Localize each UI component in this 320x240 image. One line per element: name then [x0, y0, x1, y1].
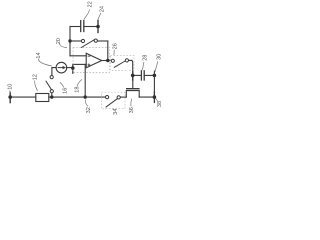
svg-text:36: 36 [129, 107, 135, 113]
dashed box around op-amp [73, 48, 110, 73]
junction dots [68, 39, 71, 42]
input terminal stub [9, 92, 11, 102]
wire riser right column [153, 71, 155, 97]
svg-text:26: 26 [113, 43, 119, 49]
wire op-amp minus lead [70, 55, 86, 57]
wire riser inverting node [69, 27, 71, 56]
svg-text:18: 18 [75, 86, 81, 92]
leader 28 [142, 62, 144, 70]
leader 12 [35, 81, 38, 91]
leader 18 [77, 79, 82, 86]
wire op-amp plus lead [73, 63, 86, 65]
wire gate riser [132, 75, 134, 88]
dashed box around switch S4 [102, 92, 126, 109]
leader lines [10, 10, 158, 110]
node stub plus-input [72, 64, 74, 73]
svg-text:22: 22 [88, 1, 94, 7]
wire rail to transistor [120, 96, 126, 98]
wire feedback switch row [71, 40, 81, 42]
dashed box around switch S2 [110, 56, 134, 71]
node stub right of C1 [97, 21, 99, 33]
leader 10 [9, 90, 11, 93]
svg-text:20: 20 [56, 38, 62, 44]
switch S3 contact circles [50, 76, 53, 79]
transistor Q1 channel staple [126, 91, 139, 98]
wire current source right lead [67, 67, 73, 69]
leader 30 [155, 61, 158, 72]
current source I1 [56, 62, 67, 73]
node stub right rail [153, 92, 155, 102]
svg-text:28: 28 [143, 55, 149, 61]
wire current source left lead [52, 68, 56, 76]
leader 14 [38, 59, 52, 67]
switch S3 blade [46, 81, 51, 89]
switch S1 blade [81, 40, 94, 48]
wire hold-cap row right [145, 74, 155, 76]
leader 24 [98, 13, 101, 20]
switch S2 contact circles [111, 59, 114, 62]
capacitor C1 plates [80, 21, 82, 32]
svg-text:38: 38 [157, 101, 163, 107]
op-amp minus sign [88, 55, 91, 57]
wire riser plus-input to rail [84, 64, 86, 97]
svg-text:16: 16 [63, 88, 69, 94]
switch S4 contact circles [106, 96, 109, 99]
wire switch S3 to rail [51, 93, 53, 96]
wire riser to hold-cap wire [131, 60, 134, 75]
box 12 [36, 94, 49, 102]
op-amp plus sign [88, 64, 91, 67]
transistor Q1 gate bar [127, 88, 139, 90]
svg-text:10: 10 [8, 84, 14, 90]
op-amp U1 triangle [86, 53, 102, 68]
svg-text:34: 34 [113, 109, 119, 115]
leader 38 [156, 99, 158, 101]
reference numerals (rotated) [8, 1, 164, 115]
capacitor C2 plates [140, 71, 142, 80]
wire rail input to box [10, 96, 36, 98]
svg-text:14: 14 [36, 52, 42, 58]
wire output switch segment [129, 59, 132, 61]
node stub hold-cap left [132, 71, 134, 80]
wire hold-cap row left [133, 74, 141, 76]
svg-text:12: 12 [33, 74, 39, 80]
leader 36 [130, 99, 133, 107]
leader 20 [60, 44, 68, 48]
switch S2 blade [114, 61, 125, 67]
wire rail box to opamp riser [49, 96, 106, 98]
wire rail transistor to right node [139, 96, 154, 98]
switch S1 contact circles [81, 39, 84, 42]
svg-text:24: 24 [100, 6, 106, 12]
leader 22 [84, 10, 90, 20]
svg-text:32: 32 [86, 107, 92, 113]
leader 32 [85, 100, 88, 107]
leader 26 [113, 50, 116, 55]
wire top feedback-cap branch horizontal [70, 26, 80, 28]
svg-text:30: 30 [157, 54, 163, 60]
switch S4 blade [106, 99, 117, 107]
op-amp output wire [102, 60, 112, 62]
leader 16 [60, 82, 64, 87]
leader 34 [113, 109, 115, 110]
wire riser feedback to output [107, 41, 109, 60]
